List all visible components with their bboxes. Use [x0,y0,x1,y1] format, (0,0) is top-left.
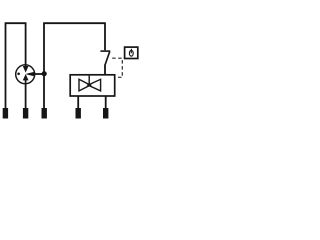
dashed mechanical link: switch to sensor box to valve box [112,58,122,77]
terminal T1 [3,108,8,119]
terminal T5 [103,108,108,119]
wire: valve box to terminal T4 [77,96,79,108]
wire: circle output to junction node [34,73,44,75]
valve V1 (double-triangle with stem) [79,76,101,91]
wire: circle bottom to terminal T2 [25,84,27,109]
wire: switch to valve box top [104,65,106,75]
thermostat sensor box B1 [125,47,138,58]
valve unit box [70,75,115,96]
terminal T3 [42,108,47,119]
wire: big loop from terminal T3 up, across top, down to switch [44,23,105,108]
sensor glyph (theta) [129,49,133,56]
switch S1 (break contact, blade with end bar) [100,51,110,65]
wire: left loop from terminal T1 up, across, down to circle top [6,23,26,108]
wire: valve box to terminal T5 [105,96,107,108]
terminal T2 [23,108,28,119]
node: junction dot on third conductor [42,71,47,76]
gas regulator G1 (circle with three converging arrows) [16,65,35,84]
terminal T4 [76,108,81,119]
